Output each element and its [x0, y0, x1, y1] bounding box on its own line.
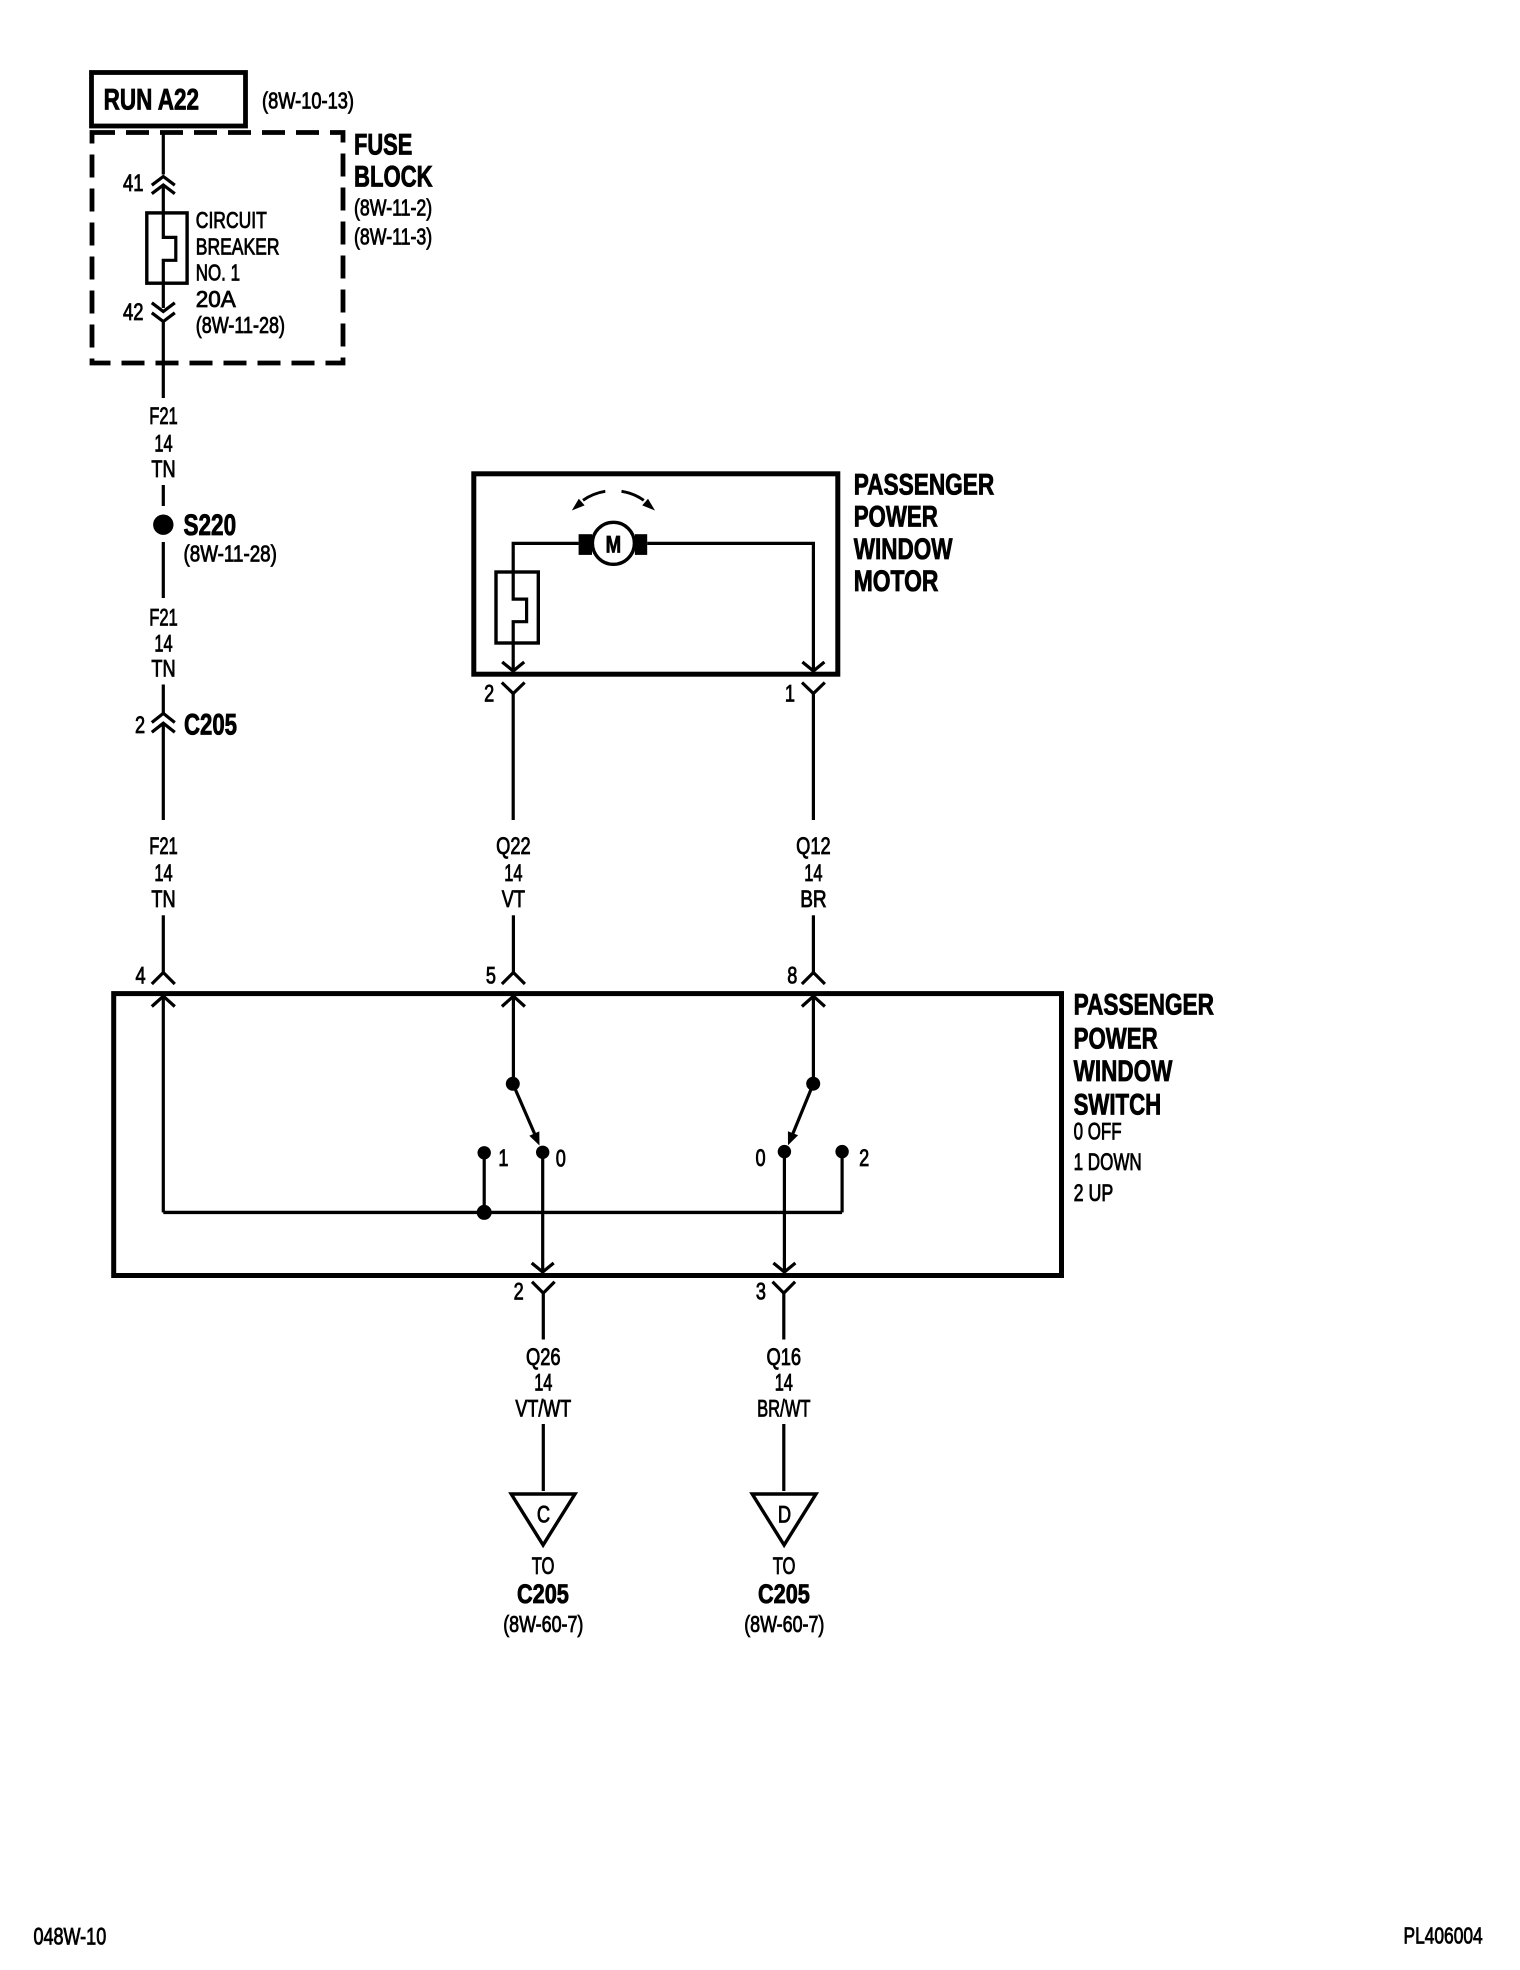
label TO C205 (8W-60-7)	[744, 1553, 824, 1637]
wire motor left to breaker	[513, 543, 578, 572]
svg-text:14: 14	[534, 1370, 552, 1397]
svg-text:BLOCK: BLOCK	[354, 161, 433, 194]
wire to switch pin 8	[812, 915, 815, 975]
svg-text:14: 14	[775, 1370, 793, 1397]
wire	[162, 485, 165, 506]
wire label F21 14 TN	[149, 403, 178, 483]
svg-text:14: 14	[154, 860, 172, 887]
svg-text:D: D	[778, 1501, 791, 1528]
svg-text:TO: TO	[773, 1553, 796, 1580]
svg-text:(8W-10-13): (8W-10-13)	[262, 88, 354, 114]
svg-text:TN: TN	[151, 456, 175, 483]
svg-text:14: 14	[804, 860, 822, 887]
rotation arrows above motor	[572, 491, 655, 510]
svg-text:Q16: Q16	[767, 1344, 802, 1371]
off-page connector D triangle	[752, 1494, 816, 1545]
svg-text:PL406004: PL406004	[1404, 1923, 1483, 1949]
wire contact 2 down to bus	[840, 1152, 843, 1212]
svg-text:0: 0	[755, 1145, 765, 1172]
svg-text:048W-10: 048W-10	[34, 1924, 107, 1951]
svg-text:TO: TO	[532, 1553, 555, 1580]
svg-text:C: C	[537, 1501, 550, 1528]
svg-text:(8W-11-2): (8W-11-2)	[354, 195, 432, 221]
svg-text:NO. 1: NO. 1	[196, 260, 240, 286]
svg-text:F21: F21	[149, 604, 178, 631]
svg-text:2: 2	[514, 1278, 524, 1305]
off-page connector C triangle	[511, 1494, 575, 1545]
svg-text:2: 2	[484, 680, 494, 707]
switch pin 3 connector below box	[756, 1278, 795, 1339]
svg-text:PASSENGER: PASSENGER	[854, 469, 995, 502]
PASSENGER POWER WINDOW MOTOR box	[474, 474, 838, 674]
svg-text:3: 3	[756, 1278, 766, 1305]
pin 41 connector (double chevron)	[123, 170, 175, 197]
left switch blade with arrow	[513, 1084, 540, 1146]
motor pin 1 connector below box	[785, 680, 825, 820]
svg-text:FUSE: FUSE	[354, 129, 412, 162]
PASSENGER POWER WINDOW SWITCH box	[114, 994, 1062, 1276]
svg-text:14: 14	[154, 630, 172, 657]
wire label Q26 14 VT/WT	[515, 1344, 571, 1423]
right switch pivot	[806, 1077, 820, 1091]
svg-text:(8W-60-7): (8W-60-7)	[744, 1611, 824, 1637]
svg-text:2 UP: 2 UP	[1074, 1180, 1114, 1207]
right contact 0	[778, 1145, 791, 1158]
wire breaker to motor pin 2 with arrow	[502, 643, 524, 671]
svg-text:20A: 20A	[196, 286, 236, 312]
wire right 0 to pin 3 with arrow	[773, 1152, 795, 1272]
node RUN A22 feed box	[92, 73, 246, 127]
wire to switch pin 5	[512, 915, 515, 975]
circuit breaker (motor internal)	[496, 572, 538, 643]
svg-text:MOTOR: MOTOR	[854, 565, 939, 598]
wire to switch pin 4	[162, 915, 165, 975]
svg-text:2: 2	[859, 1145, 869, 1172]
label PASSENGER POWER WINDOW MOTOR	[854, 469, 995, 598]
right switch blade with arrow	[788, 1084, 813, 1145]
pin 4 connector half	[136, 962, 175, 989]
label TO C205 (8W-60-7)	[503, 1553, 583, 1637]
svg-text:POWER: POWER	[1074, 1023, 1158, 1056]
circuit breaker no.1 (fuse block)	[147, 213, 187, 283]
svg-text:(8W-60-7): (8W-60-7)	[503, 1611, 583, 1637]
svg-text:8: 8	[787, 962, 797, 989]
svg-text:WINDOW: WINDOW	[854, 533, 953, 566]
svg-text:BR/WT: BR/WT	[757, 1396, 811, 1423]
svg-text:(8W-11-28): (8W-11-28)	[196, 312, 285, 338]
svg-text:(8W-11-28): (8W-11-28)	[184, 541, 277, 567]
svg-text:F21: F21	[149, 833, 178, 860]
wire label Q22 14 VT	[496, 833, 531, 913]
svg-text:SWITCH: SWITCH	[1074, 1088, 1162, 1121]
wire pin 42 out of fuse block	[162, 323, 165, 399]
svg-text:POWER: POWER	[854, 500, 938, 533]
wire label F21 14 TN	[149, 833, 178, 913]
svg-text:S220: S220	[184, 509, 237, 542]
svg-text:C205: C205	[758, 1579, 810, 1609]
svg-text:TN: TN	[151, 886, 175, 913]
junction dot	[477, 1205, 492, 1220]
motor M1	[579, 522, 648, 564]
svg-text:0 OFF: 0 OFF	[1074, 1118, 1122, 1145]
svg-text:BR: BR	[800, 886, 826, 913]
svg-text:CIRCUIT: CIRCUIT	[196, 207, 267, 233]
pin 42 connector (double chevron down)	[123, 299, 175, 326]
svg-text:Q12: Q12	[796, 833, 831, 860]
fuse block dashed boundary	[92, 133, 343, 364]
svg-text:PASSENGER: PASSENGER	[1074, 988, 1215, 1021]
svg-text:C205: C205	[184, 709, 237, 742]
wire label F21 14 TN	[149, 604, 178, 682]
wire pin41 to circuit breaker	[162, 187, 165, 214]
wire below splice	[162, 542, 165, 598]
wire	[162, 685, 165, 714]
left switch pivot	[506, 1077, 520, 1091]
motor pin 2 connector below box	[484, 680, 524, 820]
svg-text:Q22: Q22	[496, 833, 531, 860]
label CIRCUIT BREAKER NO. 1 20A (8W-11-28)	[196, 207, 285, 338]
svg-text:1 DOWN: 1 DOWN	[1074, 1149, 1142, 1176]
svg-text:VT: VT	[502, 886, 526, 913]
connector C205 pin 2 (double chevron)	[135, 709, 237, 742]
svg-text:4: 4	[136, 962, 146, 989]
svg-text:VT/WT: VT/WT	[515, 1396, 571, 1423]
pin 5 entry arrow	[502, 996, 525, 1077]
wire circuit breaker to pin 42	[162, 283, 165, 308]
wire label Q12 14 BR	[796, 833, 831, 913]
svg-text:14: 14	[154, 430, 172, 457]
svg-text:C205: C205	[517, 1579, 569, 1609]
left contact 1	[478, 1146, 491, 1159]
wire to off-page connector D	[782, 1424, 785, 1491]
svg-text:WINDOW: WINDOW	[1074, 1055, 1173, 1088]
svg-text:5: 5	[486, 962, 496, 989]
splice S220	[153, 509, 277, 567]
svg-text:(8W-11-3): (8W-11-3)	[354, 223, 432, 249]
pin 5 connector half	[486, 962, 525, 989]
wire C205 to switch	[162, 725, 165, 821]
pin 8 entry arrow	[802, 996, 825, 1077]
svg-text:F21: F21	[149, 403, 178, 430]
pin 4 entry arrow	[152, 996, 175, 1212]
wire label Q16 14 BR/WT	[757, 1344, 811, 1423]
wire left 0 to pin 2 with arrow	[532, 1152, 554, 1272]
left contact 0	[536, 1146, 549, 1159]
svg-text:0: 0	[556, 1146, 566, 1173]
svg-text:Q26: Q26	[526, 1344, 561, 1371]
svg-text:41: 41	[123, 170, 144, 197]
svg-text:1: 1	[785, 680, 795, 707]
wire from RUN A22 into fuse block	[162, 131, 165, 175]
svg-text:1: 1	[498, 1145, 508, 1172]
switch pin 2 connector below box	[514, 1278, 555, 1339]
internal bus wire	[163, 1211, 842, 1214]
wire to off-page connector C	[542, 1424, 545, 1491]
label FUSE BLOCK	[354, 129, 433, 250]
svg-text:14: 14	[504, 860, 522, 887]
svg-text:2: 2	[135, 712, 145, 739]
pin 8 connector half	[787, 962, 825, 989]
wire contact 1 down to bus	[483, 1153, 486, 1212]
label PASSENGER POWER WINDOW SWITCH	[1074, 988, 1215, 1207]
svg-text:BREAKER: BREAKER	[196, 233, 280, 259]
right contact 2	[835, 1145, 848, 1158]
svg-text:RUN A22: RUN A22	[104, 84, 199, 117]
svg-text:M: M	[606, 532, 622, 559]
svg-text:TN: TN	[151, 655, 175, 682]
wire motor right to pin 1 with arrow	[647, 543, 824, 671]
svg-text:42: 42	[123, 299, 144, 326]
